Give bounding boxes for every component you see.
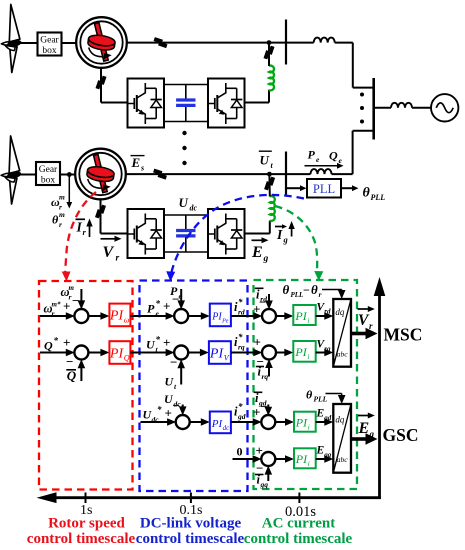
- svg-text:P: P: [147, 302, 155, 316]
- svg-text:−: −: [303, 283, 310, 297]
- svg-text:i: i: [307, 353, 309, 361]
- svg-text:Gear: Gear: [40, 35, 59, 45]
- svg-text:g: g: [283, 235, 289, 245]
- svg-text:rq: rq: [238, 343, 245, 352]
- svg-text:i: i: [308, 460, 310, 468]
- svg-text:E: E: [316, 408, 325, 420]
- svg-text:PLL: PLL: [314, 395, 328, 404]
- svg-text:U: U: [146, 338, 156, 352]
- svg-text:PI: PI: [209, 346, 225, 361]
- svg-text:gq: gq: [323, 451, 332, 459]
- svg-text:*: *: [238, 402, 243, 412]
- svg-text:MSC: MSC: [384, 325, 423, 345]
- svg-text:dc: dc: [152, 415, 160, 424]
- svg-text:rd: rd: [238, 308, 245, 317]
- svg-text:E: E: [316, 445, 325, 457]
- svg-text:gd: gd: [237, 412, 246, 421]
- svg-text:Rotor speed: Rotor speed: [48, 516, 125, 532]
- svg-text:−: −: [72, 293, 79, 308]
- svg-text:θ: θ: [283, 282, 290, 297]
- svg-text:E: E: [251, 244, 263, 261]
- svg-text:control timescale: control timescale: [244, 531, 353, 547]
- svg-text:U: U: [165, 375, 175, 389]
- svg-text:r: r: [52, 309, 55, 318]
- svg-text:i: i: [307, 317, 309, 325]
- svg-text:m*: m*: [52, 301, 61, 309]
- svg-text:ω: ω: [124, 316, 130, 325]
- svg-text:m: m: [59, 193, 65, 202]
- svg-text:PI: PI: [109, 309, 125, 324]
- svg-text:abc: abc: [337, 350, 349, 359]
- svg-text:m: m: [59, 210, 65, 219]
- svg-text:−: −: [66, 354, 73, 369]
- svg-text:+: +: [254, 335, 261, 350]
- svg-text:PI: PI: [109, 346, 125, 361]
- svg-text:+: +: [165, 406, 172, 421]
- svg-text:DC-link voltage: DC-link voltage: [140, 516, 242, 532]
- svg-text:PLL: PLL: [291, 291, 304, 299]
- svg-text:θ: θ: [363, 186, 371, 201]
- svg-text:r: r: [59, 220, 62, 229]
- svg-text:dq: dq: [335, 307, 345, 317]
- svg-text:U: U: [164, 392, 174, 406]
- svg-text:box: box: [41, 175, 56, 185]
- svg-text:−: −: [172, 292, 179, 307]
- svg-text:+: +: [253, 405, 260, 420]
- svg-text:Q: Q: [44, 339, 53, 353]
- svg-text:i: i: [308, 424, 310, 432]
- svg-text:dc: dc: [190, 204, 198, 213]
- svg-text:g: g: [369, 429, 375, 439]
- svg-text:g: g: [263, 254, 269, 264]
- svg-text:r: r: [319, 290, 322, 299]
- svg-text:m: m: [69, 284, 75, 292]
- svg-text:Q: Q: [329, 149, 338, 163]
- svg-text:−: −: [259, 295, 266, 310]
- svg-text:0: 0: [237, 445, 243, 459]
- svg-text:PI: PI: [211, 418, 224, 430]
- svg-text:θ: θ: [311, 282, 318, 297]
- svg-text:PI: PI: [294, 309, 307, 323]
- svg-text:control timescale: control timescale: [27, 531, 136, 547]
- svg-text:+: +: [63, 299, 70, 314]
- svg-text:*: *: [54, 336, 59, 346]
- svg-text:*: *: [238, 297, 243, 307]
- svg-text:*: *: [238, 332, 243, 342]
- svg-text:I: I: [76, 220, 83, 235]
- svg-text:+: +: [63, 335, 70, 350]
- svg-text:AC current: AC current: [262, 516, 335, 532]
- svg-text:dq: dq: [335, 415, 345, 425]
- svg-text:r: r: [369, 321, 373, 331]
- svg-text:θ: θ: [306, 388, 313, 402]
- svg-text:r: r: [116, 254, 120, 264]
- svg-text:θ: θ: [52, 213, 59, 227]
- svg-text:PLL: PLL: [313, 182, 335, 196]
- svg-text:abc: abc: [337, 455, 349, 464]
- svg-text:−: −: [170, 355, 177, 370]
- svg-text:PI: PI: [294, 345, 307, 359]
- svg-text:dc: dc: [223, 424, 231, 432]
- svg-text:PI: PI: [211, 312, 222, 323]
- svg-text:U: U: [179, 195, 189, 210]
- svg-text:s: s: [140, 164, 144, 173]
- svg-text:E: E: [358, 420, 370, 437]
- svg-text:PI: PI: [295, 452, 308, 466]
- svg-text:Pe: Pe: [221, 319, 229, 325]
- svg-text:Q: Q: [124, 353, 130, 362]
- svg-text:PLL: PLL: [371, 193, 386, 202]
- svg-text:GSC: GSC: [383, 425, 419, 445]
- svg-text:P: P: [308, 148, 316, 162]
- svg-text:U: U: [260, 153, 270, 168]
- svg-text:E: E: [131, 155, 141, 170]
- svg-text:gq: gq: [260, 480, 269, 489]
- svg-text:rq: rq: [262, 372, 269, 381]
- svg-text:*: *: [156, 299, 161, 309]
- svg-text:gd: gd: [323, 414, 332, 422]
- svg-text:+: +: [163, 299, 170, 314]
- svg-text:+: +: [163, 335, 170, 350]
- svg-text:*: *: [157, 405, 162, 415]
- svg-text:rd: rd: [324, 308, 331, 316]
- svg-text:rq: rq: [324, 345, 331, 353]
- svg-text:I: I: [276, 227, 283, 242]
- svg-text:box: box: [42, 46, 57, 56]
- svg-text:Gear: Gear: [39, 165, 58, 175]
- svg-text:*: *: [156, 335, 161, 345]
- svg-text:−: −: [261, 399, 268, 414]
- svg-text:control timescale: control timescale: [136, 531, 245, 547]
- svg-text:V: V: [103, 244, 115, 261]
- svg-text:PI: PI: [295, 416, 308, 430]
